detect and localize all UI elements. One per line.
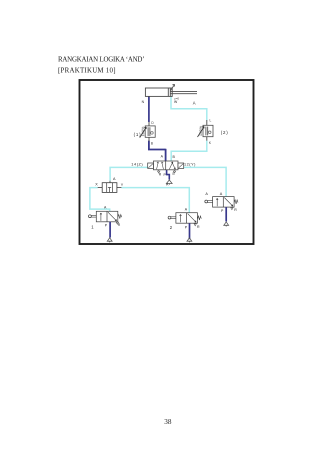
wire: left pilot 14Z to shuttle A (cyan)	[110, 167, 148, 180]
svg-text:100%: 100%	[141, 126, 145, 137]
wire: valve1 P to source (blue)	[109, 222, 111, 238]
cylinder body	[145, 88, 197, 96]
blue path inside 5/2 valve	[165, 161, 168, 169]
valve V2 bottom-middle 3/2	[168, 207, 201, 230]
svg-text:A: A	[193, 101, 196, 106]
5/2 way valve	[131, 155, 196, 177]
svg-text:1: 1	[91, 224, 94, 229]
svg-text:2: 2	[170, 225, 173, 230]
flow control valve 1	[134, 121, 156, 146]
svg-text:[PRAKTIKUM 10]: [PRAKTIKUM 10]	[58, 68, 116, 75]
wire: valve2 to 5/2 port B (cyan)	[171, 141, 207, 162]
svg-text:RANGKAIAN LOGIKA ‘AND’: RANGKAIAN LOGIKA ‘AND’	[58, 56, 145, 63]
svg-text:P: P	[105, 223, 108, 227]
wire: 5/2 P to air source (blue)	[167, 170, 170, 180]
svg-text:38: 38	[164, 418, 172, 426]
svg-text:A: A	[220, 192, 223, 196]
svg-text:K: K	[209, 141, 212, 145]
wire: valve1 fc to 5/2 port A (blue)	[149, 141, 166, 150]
wire: drop into port A (blue)	[165, 149, 167, 162]
svg-text:A: A	[166, 182, 169, 186]
diagram frame	[80, 80, 254, 244]
svg-text:L: L	[210, 119, 212, 123]
svg-text:A: A	[185, 207, 188, 211]
wire: shuttle Y to valve2 A (cyan)	[121, 188, 189, 213]
svg-text:B: B	[173, 155, 176, 159]
svg-text:12(Y): 12(Y)	[184, 162, 196, 166]
exhaust R triangle	[158, 171, 160, 173]
exhaust S triangle	[173, 171, 175, 173]
svg-text:(1): (1)	[134, 132, 142, 137]
flow control valve 2	[198, 119, 229, 146]
right cell arrows	[169, 162, 175, 169]
air source under valve2	[187, 238, 192, 243]
svg-text:X: X	[95, 183, 98, 187]
svg-text:P: P	[185, 225, 188, 229]
svg-text:100%: 100%	[199, 125, 203, 136]
svg-text:D: D	[151, 121, 154, 125]
wire: valve2 P to source (blue)	[189, 223, 191, 239]
svg-text:A: A	[205, 192, 208, 196]
air source under valve3	[224, 222, 229, 227]
svg-text:A: A	[113, 177, 116, 181]
wire: right pilot 12Y to valve3 A (cyan)	[184, 167, 226, 196]
wire: valve3 P to source (blue)	[225, 207, 227, 221]
air source under 5/2	[166, 180, 172, 185]
left cell arrows	[157, 162, 164, 169]
svg-text:N: N	[142, 100, 145, 104]
pilot left	[148, 163, 154, 168]
svg-text:y=0: y=0	[174, 96, 179, 100]
cylinder motion arrow	[171, 84, 175, 90]
wire: shuttle X to valve1 A (cyan)	[90, 188, 110, 212]
shuttle (two-pressure) valve	[95, 177, 124, 193]
svg-text:A: A	[161, 155, 164, 159]
svg-text:Y: Y	[121, 183, 124, 187]
svg-text:14(Z): 14(Z)	[131, 162, 143, 166]
svg-text:R: R	[234, 208, 237, 212]
svg-text:B: B	[151, 142, 153, 146]
pilot right	[178, 163, 184, 168]
svg-text:P: P	[221, 209, 224, 213]
svg-text:R: R	[159, 172, 162, 176]
air source under valve1	[107, 238, 112, 243]
wire: cylinder right port to valve2 (cyan)	[171, 96, 207, 120]
valve V1 bottom-left 3/2	[89, 205, 122, 229]
wire: cylinder left port to valve1 fc (blue)	[148, 96, 150, 122]
svg-text:R: R	[197, 225, 200, 229]
svg-text:W: W	[174, 100, 178, 104]
svg-text:R: R	[118, 223, 121, 227]
svg-text:(2): (2)	[221, 130, 229, 135]
valve V3 bottom-right 3/2	[205, 192, 238, 213]
